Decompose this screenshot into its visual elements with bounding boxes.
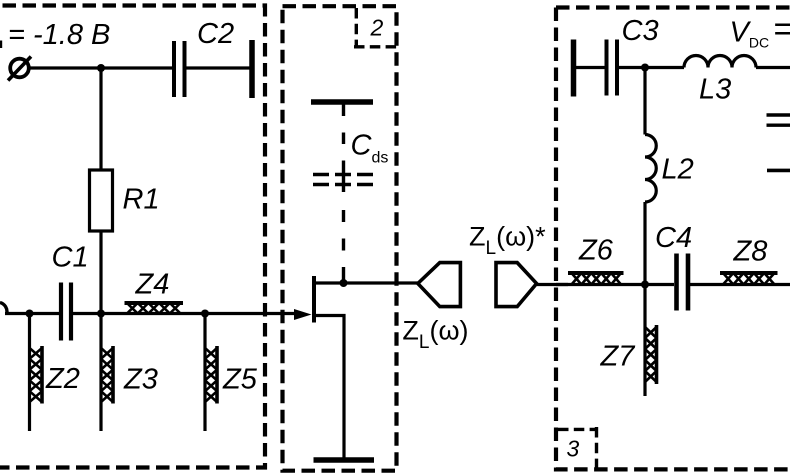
gate arrow <box>294 309 312 320</box>
svg-text:Z8: Z8 <box>733 235 768 267</box>
svg-text:Z3: Z3 <box>123 364 158 396</box>
svg-text:C2: C2 <box>197 18 234 50</box>
svg-text:Z5: Z5 <box>222 364 258 396</box>
capacitor C3 <box>607 40 618 96</box>
wire: terminal to node A <box>28 66 102 69</box>
svg-text:L2: L2 <box>662 154 694 186</box>
label box 2 corner tag <box>354 8 397 47</box>
label box 3 corner tag <box>558 427 597 469</box>
node A junction <box>97 64 105 72</box>
bias input terminal <box>10 59 29 78</box>
capacitor Cds (dashed, parasitic) <box>313 175 374 185</box>
wire: pentagon to box 3 <box>537 283 568 286</box>
dashed box 2 (transistor enclosure) <box>283 6 397 471</box>
microstrip Z4 <box>125 303 184 314</box>
drain node junction <box>340 279 348 287</box>
svg-text:3: 3 <box>567 436 580 462</box>
transistor Q1 (MESFET) <box>294 276 419 458</box>
svg-text:C1: C1 <box>52 242 89 274</box>
input port arc at left edge <box>0 303 7 314</box>
cropped subscript remnant at left edge <box>0 41 2 49</box>
stub Z7 <box>645 285 657 397</box>
node E junction <box>641 64 649 72</box>
svg-text:= -1.8 В: = -1.8 В <box>8 19 110 51</box>
wire: node A to C2 <box>101 66 173 69</box>
wire: box3 main line left part <box>556 283 674 286</box>
svg-text:C3: C3 <box>622 15 659 47</box>
node F junction <box>641 281 649 289</box>
wire: L2 to node F <box>643 202 646 285</box>
wire: C4 to right edge <box>690 283 790 286</box>
inductor L3 <box>684 56 756 68</box>
wire: C3 to node E <box>619 66 684 69</box>
svg-text:C4: C4 <box>655 222 692 254</box>
node B junction (Z2 stub) <box>26 310 34 318</box>
microstrip Z8 <box>720 273 778 285</box>
svg-text:=: = <box>773 11 790 49</box>
end bar (wall) left of C3 <box>571 40 577 97</box>
wire: end bar to C3 <box>575 66 605 69</box>
capacitor C4 <box>677 254 689 311</box>
wire: R1 to main line <box>99 231 102 314</box>
wire: L3 to right edge <box>756 66 790 69</box>
wire: node D to transistor gate <box>205 312 298 315</box>
wire: node E down to L2 <box>643 68 646 135</box>
svg-text:Z4: Z4 <box>135 268 170 300</box>
inductor L2 <box>645 135 656 203</box>
stub Z2 <box>30 314 43 432</box>
wire: C2 to end bar <box>187 66 251 69</box>
input connector (pentagon, box 3) <box>496 263 537 307</box>
end bar (wall) right of C2 <box>249 40 255 98</box>
microstrip Z6 <box>568 273 624 285</box>
svg-text:Z6: Z6 <box>578 234 614 266</box>
node D junction (Z5 stub) <box>201 310 209 318</box>
source ground bar <box>314 457 375 463</box>
svg-text:Z7: Z7 <box>600 340 637 372</box>
bypass capacitor at right edge <box>767 115 790 170</box>
svg-text:L3: L3 <box>699 74 731 106</box>
resistor R1 <box>90 170 113 231</box>
wire: input to C1 <box>5 312 59 315</box>
dashed box 1 (matching network 1 enclosure, left edge cropped) <box>0 6 265 468</box>
dashed box 3 (output matching enclosure, right edge cropped) <box>556 8 790 470</box>
wire: C1 to node C <box>73 312 205 315</box>
output connector (pentagon, box 2) <box>418 263 461 307</box>
dashed wire: top bar to Cds <box>342 104 345 281</box>
source lead <box>314 316 344 459</box>
wire: node A down to R1 <box>99 68 102 170</box>
channel bar <box>312 276 316 323</box>
svg-text:Z2: Z2 <box>45 363 80 395</box>
capacitor C2 <box>174 41 185 97</box>
svg-text:R1: R1 <box>123 184 160 216</box>
capacitor C1 <box>61 283 71 341</box>
svg-text:2: 2 <box>370 14 384 40</box>
node C junction (R1 / Z3) <box>97 310 105 318</box>
drain lead <box>314 281 419 284</box>
stub Z3 <box>101 314 113 432</box>
top ground bar in box 2 <box>311 99 373 105</box>
stub Z5 <box>205 314 217 432</box>
